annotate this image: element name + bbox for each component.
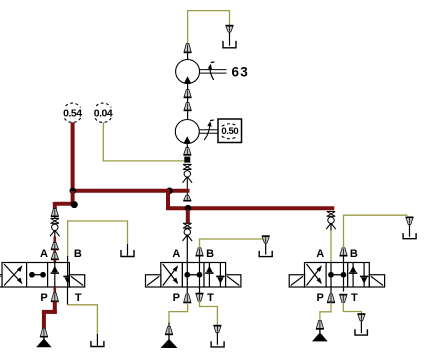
flow arrow xyxy=(262,236,270,255)
wire V3 port P supply xyxy=(320,303,331,322)
wire pressure branch drop xyxy=(166,189,170,208)
check valve CV1 xyxy=(183,171,193,183)
flow arrow xyxy=(226,26,234,46)
tank reservoir T3 xyxy=(259,251,272,257)
check valve CV4 xyxy=(326,217,336,229)
flow arrow xyxy=(183,195,191,201)
flow arrow xyxy=(183,294,191,303)
wire xyxy=(330,287,332,295)
label 63 xyxy=(232,64,250,79)
flow arrow xyxy=(183,148,191,156)
valve V3 directional 4/3 xyxy=(289,263,384,288)
check valve CV2 xyxy=(50,224,60,236)
svg-text:T: T xyxy=(75,292,82,304)
flow arrow xyxy=(327,294,335,303)
flow arrow xyxy=(340,248,348,263)
rpm indicator box 0.50 xyxy=(218,119,242,143)
check valve CV3 xyxy=(183,229,193,241)
wire V3 port B to tank xyxy=(344,215,408,248)
junction node xyxy=(185,205,192,212)
wire xyxy=(330,224,332,231)
label T xyxy=(351,292,358,304)
check valve CV2 spring xyxy=(51,219,59,224)
flow arrow xyxy=(184,44,192,60)
svg-text:0.04: 0.04 xyxy=(94,107,113,119)
flow arrow xyxy=(184,103,192,121)
check valve CV4 spring xyxy=(327,212,335,217)
wire V3 port T to tank xyxy=(343,303,361,315)
pressure source arrow xyxy=(161,335,178,349)
flow arrow xyxy=(51,209,59,219)
wire pressure bus lower xyxy=(166,206,334,210)
flow arrow xyxy=(339,287,347,303)
tank reservoir T2 xyxy=(91,341,104,347)
svg-text:A: A xyxy=(172,248,180,260)
label B xyxy=(206,248,214,260)
flow arrow xyxy=(196,287,204,301)
label T xyxy=(75,292,82,304)
flow arrow xyxy=(406,217,414,237)
label P xyxy=(40,292,47,304)
svg-text:T: T xyxy=(351,292,358,304)
tank reservoir T4 xyxy=(211,341,224,347)
svg-text:0.54: 0.54 xyxy=(63,107,82,119)
svg-text:A: A xyxy=(316,248,324,260)
motor M1 shaft xyxy=(200,70,227,74)
svg-text:63: 63 xyxy=(232,64,250,79)
tank reservoir T1 xyxy=(121,250,134,257)
flow arrow xyxy=(165,327,173,335)
wire pressure elbow xyxy=(42,302,57,330)
wire pressure to valve V1 xyxy=(55,191,75,210)
wire V1 port B to tank xyxy=(68,221,128,263)
flow arrow xyxy=(213,326,221,345)
label B xyxy=(350,248,358,260)
tank reservoir T5 xyxy=(403,233,416,239)
svg-text:P: P xyxy=(173,292,180,304)
pump P1 shaft xyxy=(199,130,218,134)
wire pressure bus upper xyxy=(71,189,190,193)
wire xyxy=(187,84,189,93)
wire motor case drain line to tank xyxy=(188,11,230,43)
svg-text:B: B xyxy=(350,248,358,260)
wire tank-state line to V3 port A xyxy=(330,230,332,263)
pressure source arrow xyxy=(312,329,328,341)
label B xyxy=(74,248,82,260)
wire xyxy=(186,235,188,263)
label P xyxy=(173,292,180,304)
tank reservoir T6 xyxy=(355,329,367,335)
wire pressure xyxy=(53,237,56,245)
svg-text:B: B xyxy=(206,248,214,260)
svg-text:B: B xyxy=(74,248,82,260)
pump P1 xyxy=(175,120,199,144)
junction node xyxy=(166,188,173,195)
wire xyxy=(186,287,188,294)
wire pressure line to gauge 0.54 xyxy=(71,122,75,191)
wire pilot line gauge 0.04 xyxy=(103,122,184,160)
label A xyxy=(172,248,180,260)
flow arrow xyxy=(51,253,59,260)
svg-text:0.50: 0.50 xyxy=(221,126,238,137)
pump P1 rotation arrow xyxy=(204,120,214,140)
gauge 0.54 xyxy=(62,103,83,122)
wire V2 port T to tank xyxy=(200,301,218,326)
check valve CV3 spring xyxy=(183,223,191,228)
svg-text:A: A xyxy=(40,248,48,260)
motor M1 xyxy=(176,60,200,84)
wire xyxy=(186,144,188,150)
svg-text:P: P xyxy=(317,292,324,304)
wire xyxy=(54,231,56,238)
label A xyxy=(316,248,324,260)
junction node xyxy=(71,201,78,208)
tank reservoir T0 xyxy=(223,41,236,48)
wire V2 port B to tank xyxy=(200,239,264,249)
valve V2 directional 4/3 xyxy=(146,263,241,288)
flow arrow xyxy=(40,328,48,337)
flow arrow xyxy=(357,314,365,333)
wire V1 port T to tank xyxy=(68,287,98,346)
wire pressure to port A xyxy=(53,260,56,264)
junction node xyxy=(70,188,77,195)
svg-text:T: T xyxy=(207,292,214,304)
wire xyxy=(186,177,188,196)
flow arrow xyxy=(196,248,204,263)
gauge 0.04 xyxy=(92,103,113,122)
label A xyxy=(40,248,48,260)
label T xyxy=(207,292,214,304)
flow arrow xyxy=(184,90,192,105)
pressure source arrow xyxy=(36,337,51,348)
label P xyxy=(317,292,324,304)
flow arrow xyxy=(316,321,324,330)
motor M1 variable displacement arrow xyxy=(208,62,215,80)
junction node xyxy=(184,157,190,163)
wire V2 port P supply xyxy=(169,303,188,328)
wire V1 port P pressure xyxy=(53,287,56,294)
check valve CV1 spring xyxy=(183,164,191,169)
valve V1 directional 4/3 xyxy=(0,263,85,288)
svg-text:P: P xyxy=(40,292,47,304)
wire pressure xyxy=(53,250,56,254)
flow arrow xyxy=(51,243,59,250)
wire pressure to valve V2 xyxy=(186,210,190,224)
flow arrow xyxy=(51,293,59,302)
